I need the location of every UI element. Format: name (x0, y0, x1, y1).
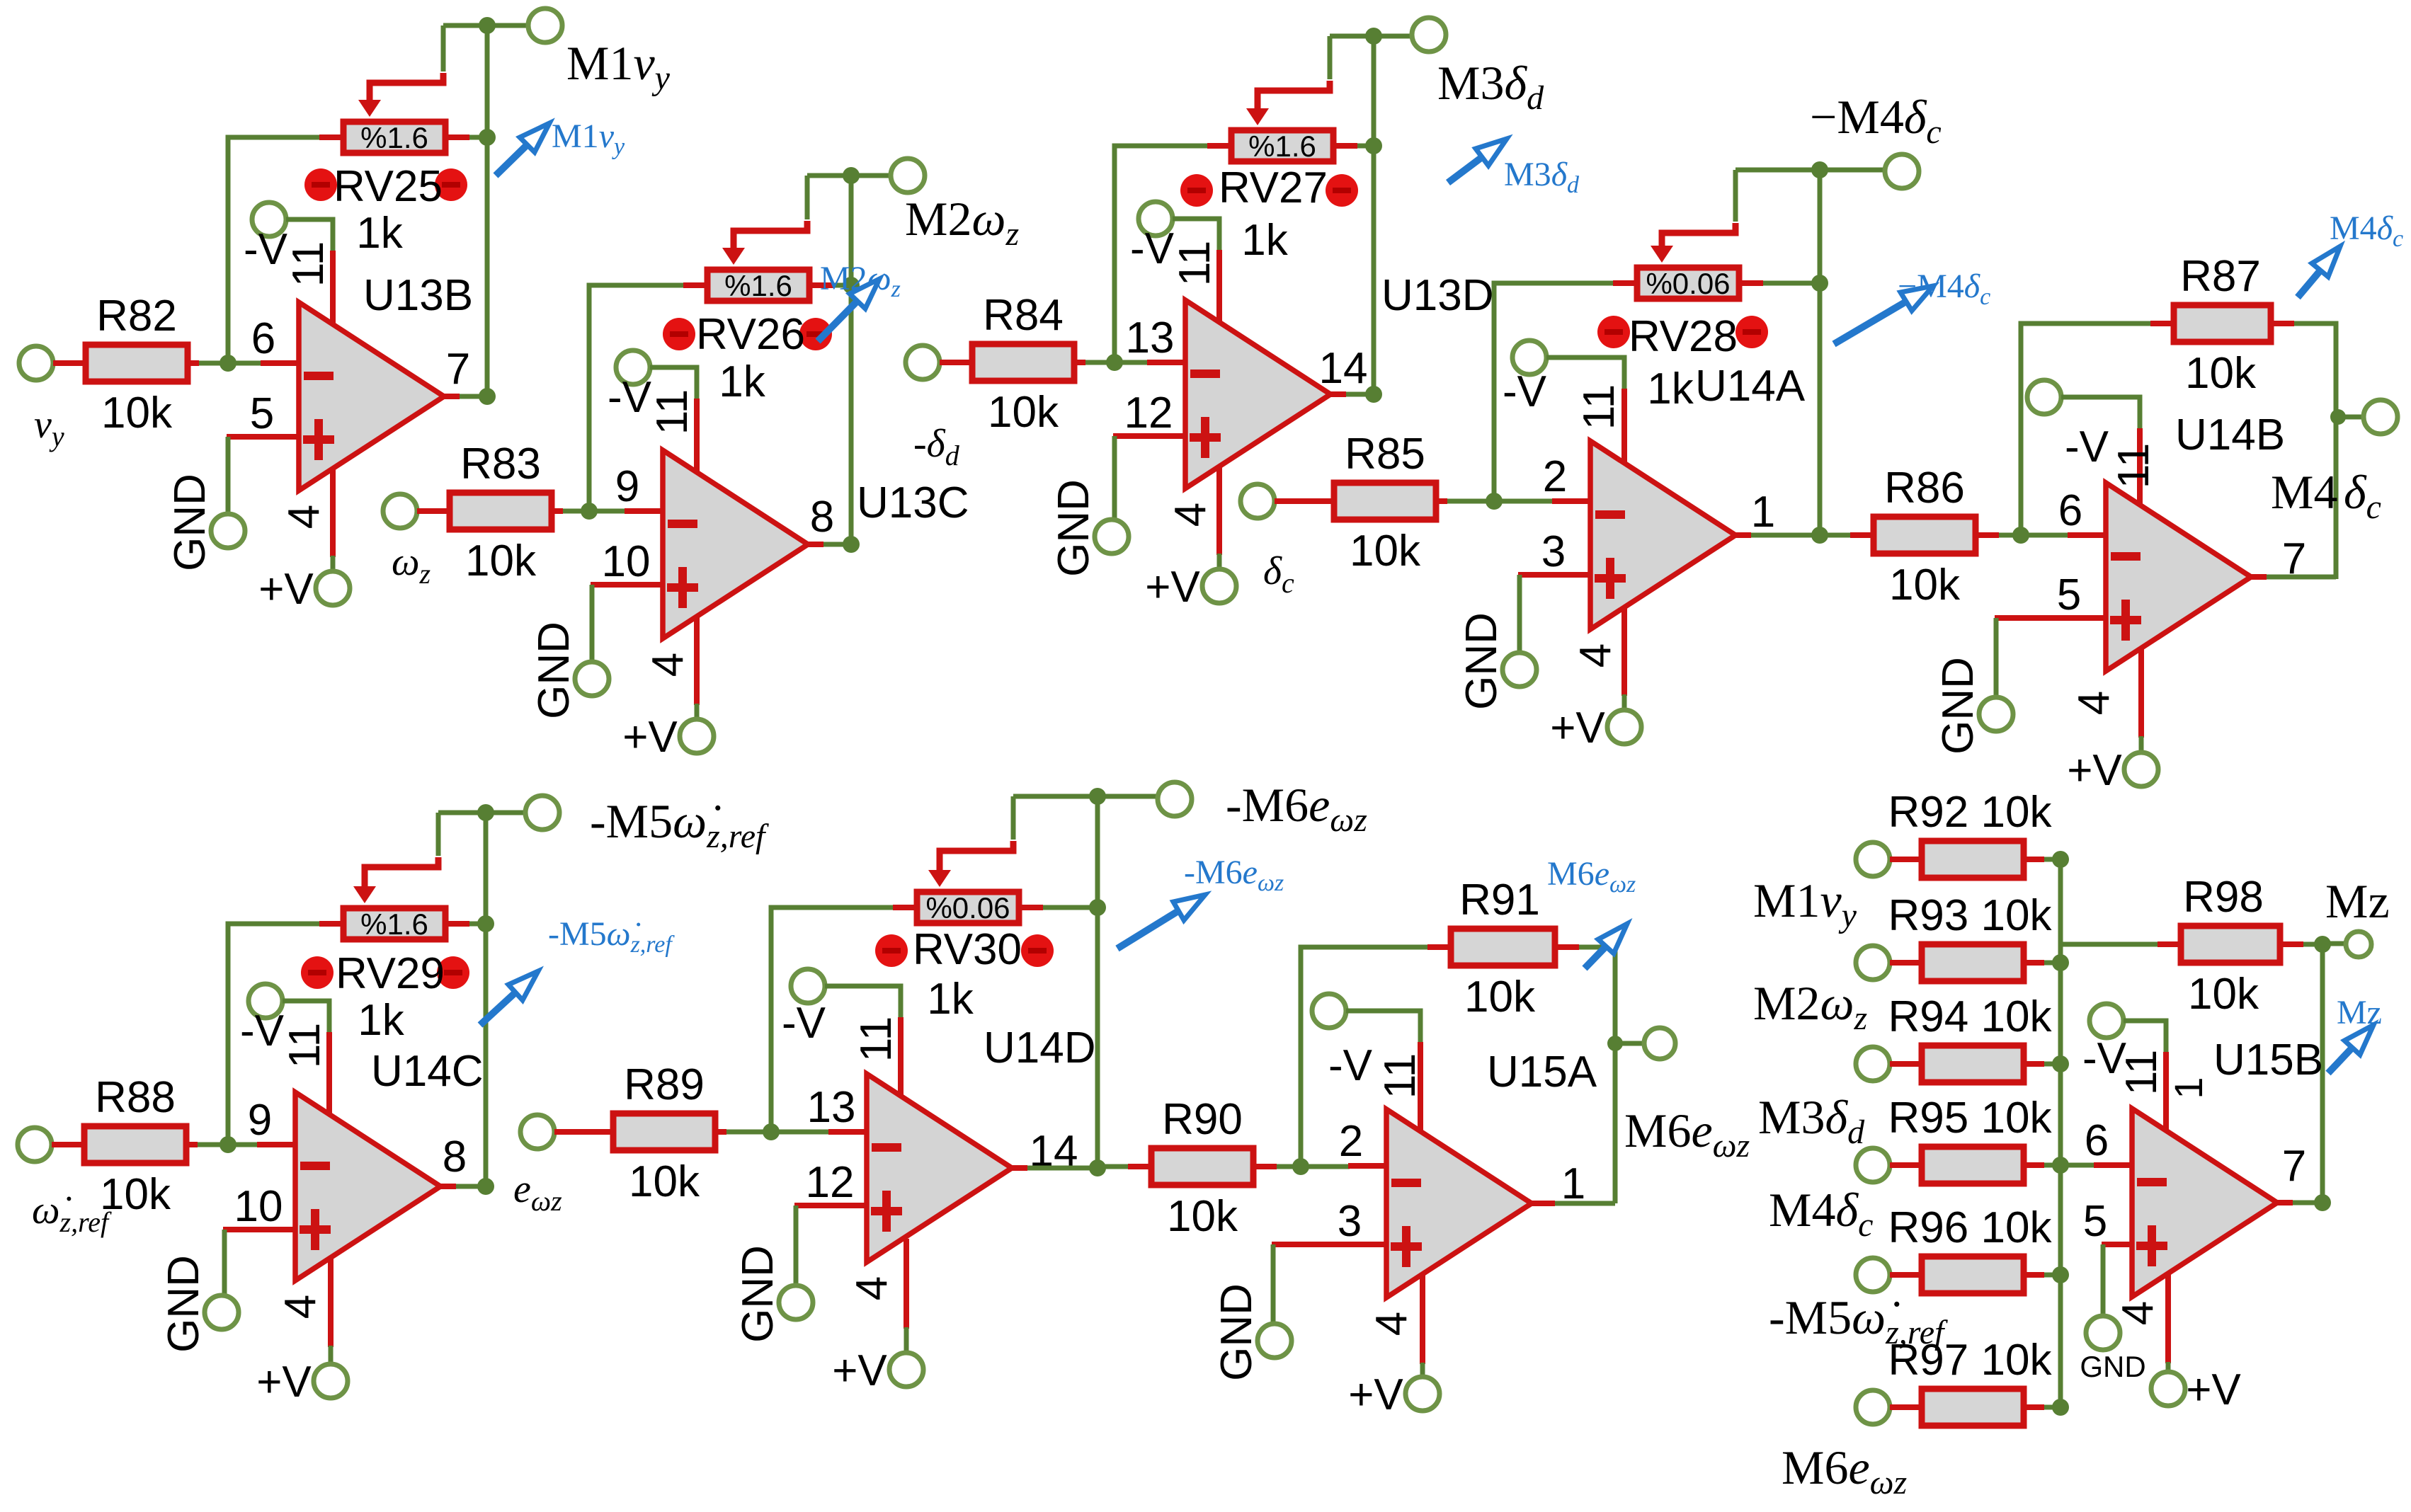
pin 4 lead of U14A (1621, 606, 1627, 696)
label R88 (95, 1073, 176, 1122)
svg-text:R87: R87 (2180, 252, 2261, 301)
label +V of U13C (622, 713, 678, 762)
pin 11 lead of U14A (1621, 389, 1627, 464)
junction at R88 output node (220, 1136, 236, 1153)
wire pin 4 to +V of U13B (331, 556, 336, 571)
junction on top rail (1811, 161, 1828, 178)
probe label M2ω_z (blue) (820, 260, 901, 302)
pin 4 lead of U13C (694, 615, 700, 705)
pin number 11 of U14D (852, 1016, 901, 1062)
output terminal -M4δ_c (1885, 154, 1919, 188)
wire RV28 right to bus (1763, 281, 1820, 286)
-V terminal of U14B (2027, 380, 2061, 414)
svg-text:R97 10k: R97 10k (1888, 1336, 2053, 1385)
svg-text:M4: M4 (2271, 465, 2337, 519)
wire top rail to wiper (green part) (1328, 36, 1333, 79)
svg-text:U15B: U15B (2213, 1036, 2323, 1084)
junction output of U13D (1365, 386, 1382, 403)
label RV26 (696, 310, 805, 359)
RV27 wiper arrow (1246, 91, 1269, 125)
pin 8 lead (output) of U14C (439, 1184, 456, 1189)
pin 6 lead (inverting input) of U15B (2094, 1162, 2133, 1168)
svg-text:R95 10k: R95 10k (1888, 1094, 2053, 1142)
svg-text:1k: 1k (927, 975, 974, 1024)
label R83 (460, 440, 541, 488)
probe arrow M6e_ωz (1585, 924, 1627, 968)
wire top rail of U14C block (438, 811, 525, 815)
label -V of U13D (1130, 224, 1175, 273)
svg-text:2: 2 (1339, 1117, 1363, 1166)
R95 right lead (2027, 1162, 2044, 1168)
input terminal ω_z (383, 494, 417, 528)
R89 right lead (718, 1129, 726, 1135)
wire node up to R87 (2021, 323, 2150, 535)
label -V of U14A (1503, 367, 1547, 416)
pin 1 lead (output) of U15A (1530, 1201, 1547, 1206)
-V terminal of U13C (616, 350, 650, 384)
pin 11 lead of U15A (1418, 1042, 1423, 1132)
label GND of U13D (1049, 479, 1098, 577)
pin 1 output stub of U14A (1734, 532, 1751, 538)
label RV30 (913, 925, 1022, 974)
wire node to inverting input of U13D (1115, 360, 1148, 365)
wire node to RV25 left terminal (228, 137, 319, 363)
GND terminal of U13B (211, 514, 245, 548)
svg-text:GND: GND (734, 1245, 782, 1343)
wire -V to pin 11 of U15A (1346, 1011, 1420, 1043)
input terminal ω̇_z,ref (18, 1128, 52, 1162)
wire R83 to node (563, 509, 589, 514)
wire top rail to wiper (green part) (1733, 170, 1738, 222)
junction RV25 output on bus (479, 129, 496, 146)
R94 right lead (2027, 1061, 2044, 1067)
wire U15B output to bus (2293, 1201, 2322, 1205)
pin 7 output stub of U13B (443, 394, 460, 399)
value 1k of RV27 (1241, 216, 1288, 265)
RV30 right lead (1022, 905, 1043, 910)
R98 left lead (2158, 941, 2178, 947)
net label M1v_y (566, 36, 671, 97)
svg-text:GND: GND (1049, 479, 1098, 577)
pin 9 lead (inverting input) of U14C (257, 1142, 297, 1147)
svg-text:R85: R85 (1345, 430, 1425, 479)
svg-text:R84: R84 (983, 291, 1064, 340)
resistor R84 (972, 344, 1074, 381)
wire pin 4 to +V of U13D (1217, 554, 1222, 569)
op-amp U15A (1386, 1109, 1532, 1298)
+V terminal of U14D (889, 1353, 923, 1387)
label RV29 (336, 949, 445, 998)
pin 7 lead (output) of U14B (2250, 574, 2267, 580)
pin 14 lead (output) of U13D (1329, 391, 1346, 397)
output terminal M1v_y (528, 8, 562, 42)
input terminal M1v_y (summing) (1856, 842, 1890, 876)
junction RV28 output on bus (1811, 275, 1828, 292)
pin number 7 of U14B (2282, 534, 2306, 583)
pin number 10 of U13C (602, 537, 651, 586)
pin number 10 of U14C (234, 1182, 283, 1231)
svg-text:1k: 1k (356, 209, 403, 258)
svg-text:1: 1 (2166, 1077, 2211, 1099)
R85 right lead (1439, 498, 1447, 504)
input terminal M4δ_c (summing) (1856, 1148, 1890, 1182)
RV26 left lead (683, 282, 705, 288)
op-amp U14C (295, 1092, 440, 1281)
wire top rail of U14A block (1735, 168, 1885, 173)
designator U14B (2175, 411, 2285, 459)
wire terminal to R94 (1890, 1061, 1919, 1067)
svg-text:10k: 10k (465, 537, 537, 585)
output terminal M6e_ωz (1644, 1028, 1675, 1059)
pin number 13 of U14D (807, 1083, 856, 1132)
net label M6e_ωz (U15A output) (1624, 1104, 1750, 1164)
net label -M4δ_c (1810, 90, 1942, 151)
svg-text:1: 1 (1751, 488, 1775, 537)
svg-text:RV25: RV25 (334, 162, 443, 211)
wire RV25 right to bus (469, 135, 487, 140)
label RV27 (1219, 164, 1328, 212)
label R82 (96, 292, 177, 340)
wire R92 to summing bus (2044, 857, 2061, 862)
RV25 right adjust dot (435, 168, 467, 201)
RV26 right adjust dot (799, 318, 832, 350)
wire U14A output to R86 (1820, 533, 1850, 538)
wire to Mz terminal (2322, 941, 2344, 946)
resistor R83 (450, 493, 552, 529)
label -V of U15A (1328, 1041, 1373, 1090)
wire non-inverting input to GND of U14C (222, 1230, 227, 1295)
wire pin 4 to +V of U14A (1622, 694, 1627, 710)
wire RV26 right to bus (833, 283, 851, 288)
svg-text:R91: R91 (1459, 876, 1540, 924)
wire R85 to node (1447, 499, 1494, 504)
wire RV29 right to bus (469, 922, 486, 927)
label R85 (1345, 430, 1425, 479)
pin 13 lead (inverting input) of U14D (828, 1129, 868, 1135)
input terminal M2ω_z (summing) (1856, 946, 1890, 980)
wire node to inverting input of U14D (771, 1130, 830, 1135)
label -V of U14B (2065, 423, 2109, 471)
wire input terminal to R83 (417, 508, 447, 514)
wire RV27 right to bus (1357, 144, 1374, 149)
svg-text:10k: 10k (1464, 973, 1536, 1021)
wire feedback to RV29 wiper (365, 857, 438, 869)
pin number 5 of U15B (2083, 1197, 2107, 1246)
svg-text:6: 6 (2058, 486, 2082, 535)
value 10k of R82 (101, 389, 173, 437)
value 1k of RV29 (358, 996, 404, 1045)
wire feedback to RV26 wiper (734, 221, 807, 232)
RV25 wiper arrow (358, 83, 381, 117)
wire pin 4 to +V of U13C (695, 704, 700, 719)
wire non-inverting input to GND of U13B (226, 437, 231, 514)
wire feedback to RV28 wiper (1662, 223, 1735, 234)
resistor R92 (1922, 841, 2024, 878)
label +V of U14B (2067, 746, 2122, 795)
pin 13 lead (inverting input) of U13D (1147, 360, 1187, 365)
pin 11 lead of U13D (1216, 250, 1222, 323)
wire top rail of U13B block (443, 23, 528, 28)
svg-text:3: 3 (1338, 1197, 1362, 1246)
value 10k of R89 (629, 1157, 700, 1206)
label +V of U13B (258, 565, 314, 614)
RV27 right adjust dot (1326, 174, 1358, 207)
junction output of U14D (1089, 1159, 1106, 1176)
R88 right lead (189, 1142, 198, 1147)
svg-text:U13C: U13C (857, 479, 969, 527)
value 10k of R90 (1167, 1192, 1238, 1241)
pin 11 lead of U13B (330, 251, 336, 325)
label +V of U14D (832, 1346, 887, 1395)
probe arrow -M6e_ωz (1117, 895, 1205, 949)
pin 2 lead (inverting input) of U15A (1348, 1163, 1388, 1169)
svg-text:R90: R90 (1162, 1095, 1243, 1144)
pin number 8 of U14C (443, 1133, 467, 1181)
wire output of U14C to bus (456, 1184, 486, 1189)
svg-text:M2ωz: M2ωz (1753, 976, 1867, 1037)
wire output of U14D to bus (1027, 1166, 1098, 1171)
net label M4 (left of wire) (2271, 465, 2337, 519)
svg-text:+V: +V (2186, 1365, 2241, 1414)
junction on top rail (479, 17, 496, 34)
value label %1.6 of RV29 (360, 907, 428, 941)
wire R90 to U15A node (1277, 1164, 1301, 1169)
wire node up to R91 (1301, 947, 1427, 1167)
potentiometer RV25 body (343, 122, 445, 153)
pin lead (non-inverting input) of U14C (223, 1227, 297, 1232)
value 1k of RV25 (356, 209, 403, 258)
probe label M3δ_d (blue) (1504, 156, 1580, 198)
RV25 left adjust dot (304, 168, 337, 201)
label +V of U14C (256, 1358, 312, 1407)
junction R95 on summing bus (2052, 1157, 2069, 1174)
pin number 7 of U15B (2282, 1142, 2306, 1191)
wire R88 to node (198, 1142, 228, 1147)
svg-text:U14A: U14A (1695, 362, 1806, 411)
net label Mz (2325, 874, 2390, 928)
pin number 11 of U15B (2117, 1050, 2166, 1095)
pin number 4 of U14C (276, 1295, 325, 1319)
svg-text:10k: 10k (2185, 349, 2257, 398)
svg-text:-V: -V (1328, 1041, 1373, 1090)
pin number 4 of U14A (1571, 643, 1620, 668)
pin number 4 of U14D (848, 1276, 896, 1300)
input terminal δ_c (1241, 484, 1275, 518)
designator U14C (371, 1047, 484, 1096)
label GND of U15A (1212, 1283, 1261, 1381)
svg-text:10k: 10k (1889, 561, 1961, 609)
junction R93 on summing bus (2052, 954, 2069, 971)
junction at R84 output node (1106, 354, 1123, 371)
svg-text:11: 11 (280, 1023, 329, 1068)
resistor R94 (1922, 1046, 2024, 1082)
svg-text:11: 11 (1170, 241, 1219, 286)
resistor R96 (1922, 1256, 2024, 1293)
resistor R85 (1334, 483, 1436, 520)
svg-text:2: 2 (1543, 452, 1567, 501)
probe arrow M2ω_z (818, 279, 879, 341)
svg-text:10: 10 (602, 537, 651, 586)
pin number 12 of U13D (1124, 389, 1173, 437)
R84 right lead (1077, 360, 1085, 365)
svg-text:4: 4 (848, 1276, 896, 1300)
junction R97 on summing bus (2052, 1399, 2069, 1416)
RV27 left adjust dot (1180, 174, 1213, 207)
wire R96 to summing bus (2044, 1273, 2061, 1278)
svg-text:-V: -V (244, 225, 288, 274)
wire top rail of U13D block (1330, 34, 1412, 39)
pin number 11 of U14C (280, 1023, 329, 1068)
wire top rail to wiper (green part) (805, 176, 810, 219)
svg-text:R82: R82 (96, 292, 177, 340)
pin number 12 of U14D (806, 1158, 855, 1207)
probe label Mz (blue) (2337, 994, 2382, 1031)
wire summing bus (2058, 859, 2063, 1407)
RV28 right adjust dot (1735, 316, 1768, 348)
wire R94 to summing bus (2044, 1062, 2061, 1067)
svg-text:GND: GND (1457, 612, 1506, 710)
wire feedback to RV30 wiper (940, 841, 1013, 852)
svg-text:R92 10k: R92 10k (1888, 788, 2053, 837)
R96 right lead (2027, 1272, 2044, 1278)
wire pin 4 to +V of U15A (1420, 1363, 1425, 1377)
pin number 9 of U14C (248, 1096, 272, 1145)
-V terminal of U13B (252, 202, 286, 236)
svg-text:4: 4 (2070, 691, 2119, 715)
pin 7 output stub of U14B (2250, 574, 2267, 580)
value 10k of R91 (1464, 973, 1536, 1021)
junction R92 on summing bus (2052, 851, 2069, 868)
svg-text:7: 7 (2282, 1142, 2306, 1191)
pin number 4 of U13B (280, 505, 329, 529)
pin 7 output stub of U15B (2276, 1200, 2293, 1205)
svg-text:R89: R89 (624, 1060, 705, 1109)
wire terminal to R95 (1890, 1162, 1919, 1168)
op-amp U15B (2132, 1109, 2277, 1297)
svg-text:-V: -V (782, 999, 826, 1048)
wire terminal to R96 (1890, 1272, 1919, 1278)
svg-text:+V: +V (1550, 704, 1605, 752)
label R98 (2183, 873, 2264, 922)
svg-text:11: 11 (1575, 384, 1624, 430)
svg-text:1k: 1k (1241, 216, 1288, 265)
wire to M4δ_c terminal (2338, 415, 2362, 420)
output terminal -M6e_ωz (1158, 782, 1192, 816)
wire output bus of U13B (485, 25, 490, 396)
R91 left lead (1427, 944, 1448, 950)
pin number 4 of U14B (2070, 691, 2119, 715)
junction on top rail (843, 167, 860, 184)
op-amp U14B (2106, 483, 2251, 671)
label RV25 (334, 162, 443, 211)
svg-text:8: 8 (443, 1133, 467, 1181)
svg-text:M2ωz: M2ωz (905, 192, 1019, 253)
output terminal M3δ_d (1412, 18, 1446, 52)
output terminal -M5ω̇_z,ref (525, 796, 559, 830)
svg-text:11: 11 (852, 1016, 901, 1062)
pin 6 lead (inverting input) of U14B (2068, 532, 2107, 538)
svg-text:+V: +V (1145, 563, 1200, 612)
label GND of U13B (166, 474, 215, 571)
resistor R90 (1151, 1148, 1253, 1185)
probe arrow M1v_y (496, 123, 549, 176)
pin 7 lead (output) of U15B (2276, 1200, 2293, 1205)
wire R82 to node (199, 361, 228, 366)
+V terminal of U14A (1607, 710, 1641, 744)
resistor R87 (2174, 305, 2271, 342)
pin 4 lead of U15B (2165, 1273, 2171, 1363)
label GND of U14B (1934, 657, 1983, 755)
svg-text:RV28: RV28 (1629, 312, 1738, 361)
pin 6 lead (inverting input) of U13B (261, 360, 300, 366)
wire RV30 right to bus (1043, 905, 1098, 910)
pin number 4 of U13D (1166, 503, 1215, 527)
GND terminal of U13D (1095, 520, 1129, 554)
wire top rail to wiper (green part) (1011, 796, 1016, 840)
wire input terminal to R89 (554, 1129, 610, 1135)
pin number 4 of U15B (2114, 1301, 2162, 1325)
resistor R88 (84, 1126, 186, 1163)
wire non-inverting input to GND of U15B (2101, 1244, 2106, 1316)
wire R84 to node (1085, 360, 1115, 365)
pin lead (non-inverting input) of U14D (794, 1203, 868, 1208)
pin number 5 of U14B (2057, 571, 2081, 619)
junction at R89 output node (763, 1123, 780, 1140)
pin lead (non-inverting input) of U13B (227, 434, 300, 440)
pin number 3 of U14A (1541, 527, 1566, 576)
wire input terminal to R84 (940, 360, 969, 365)
value 1k of RV30 (927, 975, 974, 1024)
op-amp U13B (299, 302, 444, 491)
pin 8 output stub of U14C (439, 1184, 456, 1189)
svg-text:11: 11 (2117, 1050, 2166, 1095)
value 10k of R84 (988, 388, 1059, 437)
probe arrow -M5ω̇_z,ref (480, 971, 538, 1025)
svg-text:4: 4 (1166, 503, 1215, 527)
pin number 13 of U13D (1126, 314, 1175, 362)
svg-text:5: 5 (2083, 1197, 2107, 1246)
pin number 1 of U14A (1751, 488, 1775, 537)
wire node to inverting input of U14A (1494, 499, 1554, 504)
wire output of U13D to bus (1346, 392, 1374, 397)
label -V of U14D (782, 999, 826, 1048)
pin number 7 of U13B (446, 345, 470, 394)
net label v_y (34, 403, 64, 452)
pin number 6 of U14B (2058, 486, 2082, 535)
label -V of U13B (244, 225, 288, 274)
R86 left lead (1850, 532, 1871, 538)
label +V of U15B (2186, 1365, 2241, 1414)
svg-text:-V: -V (608, 373, 652, 422)
RV30 left adjust dot (875, 934, 908, 967)
pin number 11 of U13B (284, 241, 333, 287)
pin 4 lead of U13D (1216, 465, 1222, 555)
RV27 left lead (1207, 143, 1229, 149)
wire terminal to R97 (1890, 1404, 1919, 1410)
label R94 10k (1888, 992, 2053, 1041)
pin 11 lead of U14D (898, 1017, 904, 1096)
R98 right lead (2283, 941, 2303, 947)
pin lead (non-inverting input) of U14B (1995, 615, 2107, 621)
label +V of U14A (1550, 704, 1605, 752)
svg-text:U14D: U14D (984, 1024, 1096, 1072)
net label δ_c (right of wire) (2344, 465, 2381, 526)
pin 4 lead of U14C (328, 1257, 334, 1347)
RV29 right lead (448, 921, 469, 927)
label GND of U15B (2080, 1350, 2145, 1383)
value 10k of R86 (1889, 561, 1961, 609)
svg-text:1k: 1k (358, 996, 404, 1045)
